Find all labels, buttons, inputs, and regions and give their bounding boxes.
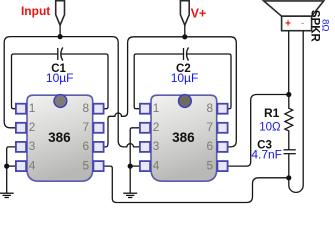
terminal Input [56, 1, 65, 26]
ground IC1 [0, 166, 14, 197]
wire IC2 pin5 output up to speaker + node [228, 95, 289, 167]
svg-text:V+: V+ [191, 6, 207, 20]
svg-text:Input: Input [21, 4, 50, 18]
svg-text:4: 4 [29, 158, 36, 172]
svg-text:SPKR: SPKR [309, 10, 321, 43]
wire input stem [59, 25, 61, 36]
wire input loop left (input node to IC1 pin2) [4, 37, 60, 128]
wire IC2 pin2 to ground [130, 128, 140, 166]
wire IC1 pin3 to ground [7, 147, 16, 166]
pin numbers U2 [153, 101, 214, 173]
svg-text:R1: R1 [264, 106, 280, 120]
svg-text:1: 1 [153, 101, 160, 115]
svg-text:-: - [301, 18, 304, 28]
node A input junction [58, 34, 63, 39]
node IC1 gnd junction [4, 164, 9, 169]
node C3 bottom junction [286, 175, 291, 180]
svg-text:8: 8 [206, 101, 213, 115]
wire v+ stem [184, 25, 186, 37]
svg-text:3: 3 [153, 139, 160, 153]
svg-text:7: 7 [206, 120, 213, 134]
svg-text:4.7nF: 4.7nF [251, 148, 282, 162]
wire IC2 pin4 to ground [130, 165, 140, 167]
op-amp U1 386 body [27, 95, 93, 182]
capacitor C3 [284, 150, 296, 178]
svg-text:+: + [285, 18, 291, 29]
capacitor C1 [58, 47, 63, 60]
svg-text:8Ω: 8Ω [319, 19, 330, 31]
speaker SPKR [264, 1, 324, 31]
svg-text:6: 6 [82, 139, 89, 153]
svg-text:3: 3 [29, 139, 36, 153]
node IC2 gnd junction [128, 164, 133, 169]
svg-text:2: 2 [153, 120, 160, 134]
pin boxes U2 left [140, 104, 150, 171]
wire input loop right (input node to IC2 pin3, hop over gnd wire) [60, 37, 140, 147]
svg-text:2: 2 [29, 120, 36, 134]
resistor R1 [285, 95, 293, 150]
wire speaker left lead [288, 31, 290, 95]
svg-text:10µF: 10µF [171, 71, 199, 85]
svg-text:7: 7 [82, 120, 89, 134]
pin boxes U2 right [217, 104, 227, 171]
op-amp U2 386 body [151, 95, 217, 182]
pin numbers U1 [29, 101, 90, 173]
ground IC2 [123, 166, 137, 197]
wire IC1 pin4 to ground [7, 165, 16, 167]
terminal V+ [180, 1, 189, 26]
svg-text:386: 386 [172, 130, 195, 145]
wire V+ loop left (V+ node down to IC1 pin6, hop over input wire) [104, 37, 185, 147]
svg-text:10Ω: 10Ω [259, 122, 281, 134]
node speaker plus junction [286, 92, 291, 97]
svg-text:10µF: 10µF [46, 71, 74, 85]
capacitor C2 [184, 47, 189, 60]
svg-text:5: 5 [82, 158, 89, 172]
wire C1 loop right (IC1 pin8 up to C1) [61, 54, 108, 109]
svg-text:6: 6 [206, 139, 213, 153]
svg-text:386: 386 [48, 130, 71, 145]
svg-text:1: 1 [29, 101, 36, 115]
wire C2 loop left (IC2 pin1 up to C2) [134, 54, 183, 109]
wire C1 loop left (IC1 pin1 up to C1) [12, 54, 58, 109]
wire C2 loop right (IC2 pin8 up to C2) [187, 54, 231, 109]
svg-text:5: 5 [206, 158, 213, 172]
pin boxes U1 left [16, 104, 26, 171]
wire IC1 pin5 output along bottom rail to C3 bottom node [104, 166, 289, 202]
svg-text:4: 4 [153, 158, 160, 172]
node B V+ junction [182, 34, 187, 39]
wire V+ loop right (V+ node to IC2 pin6) [185, 37, 237, 147]
pin boxes U1 right [93, 104, 103, 171]
svg-text:8: 8 [82, 101, 89, 115]
wire speaker right lead + u-turn to C3 node [289, 31, 303, 193]
